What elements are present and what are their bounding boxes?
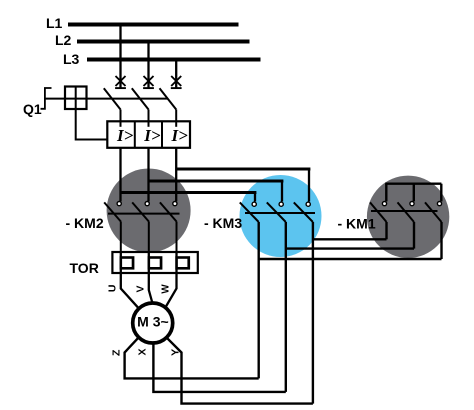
svg-text:U: U <box>107 285 119 293</box>
svg-text:V: V <box>134 285 146 292</box>
svg-text:I>: I> <box>116 126 134 145</box>
svg-text:I>: I> <box>171 126 189 145</box>
svg-text:TOR: TOR <box>70 260 99 276</box>
svg-text:W: W <box>161 284 172 294</box>
svg-text:Y: Y <box>170 349 182 356</box>
svg-text:Q1: Q1 <box>23 101 42 117</box>
svg-text:- KM1: - KM1 <box>338 216 376 232</box>
svg-text:I>: I> <box>143 126 161 145</box>
svg-text:L2: L2 <box>55 32 72 48</box>
svg-text:- KM3: - KM3 <box>204 215 242 231</box>
svg-text:Z: Z <box>111 349 123 356</box>
svg-text:M 3~: M 3~ <box>137 314 169 330</box>
svg-text:X: X <box>136 348 148 355</box>
svg-text:- KM2: - KM2 <box>66 215 104 231</box>
svg-text:L3: L3 <box>63 51 80 67</box>
svg-text:L1: L1 <box>46 15 63 31</box>
